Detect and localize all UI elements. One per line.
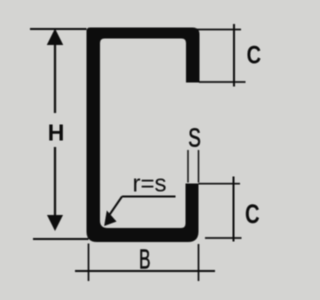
svg-text:C: C <box>247 41 261 69</box>
B left extension line <box>88 244 90 282</box>
H arrow down <box>47 215 63 231</box>
C-profile cross-section (web, flanges, lips) <box>87 28 200 243</box>
r=s leader arrowhead <box>104 211 116 227</box>
svg-text:C: C <box>245 199 260 230</box>
S extension line left <box>187 150 189 183</box>
H dimension: top extension line <box>30 28 87 30</box>
top C dimension line <box>233 24 235 87</box>
H dimension line lower segment <box>54 147 56 228</box>
top C upper tick <box>196 29 241 31</box>
svg-text:B: B <box>139 243 151 274</box>
bottom C lower tick <box>205 237 242 239</box>
B right extension line <box>198 244 200 281</box>
S extension line right <box>198 150 200 183</box>
svg-text:r=s: r=s <box>132 171 166 198</box>
H arrow up <box>47 29 63 46</box>
r=s leader diagonal <box>109 197 122 216</box>
bottom C dimension line <box>233 177 235 242</box>
top C lower tick <box>199 81 246 83</box>
r=s leader underline <box>122 196 176 198</box>
H dimension line upper segment <box>54 33 56 113</box>
B dimension line <box>75 270 215 272</box>
svg-text:H: H <box>48 120 65 146</box>
svg-text:S: S <box>188 124 201 152</box>
bottom C upper tick <box>199 183 241 185</box>
H dimension: bottom extension line <box>33 238 89 240</box>
